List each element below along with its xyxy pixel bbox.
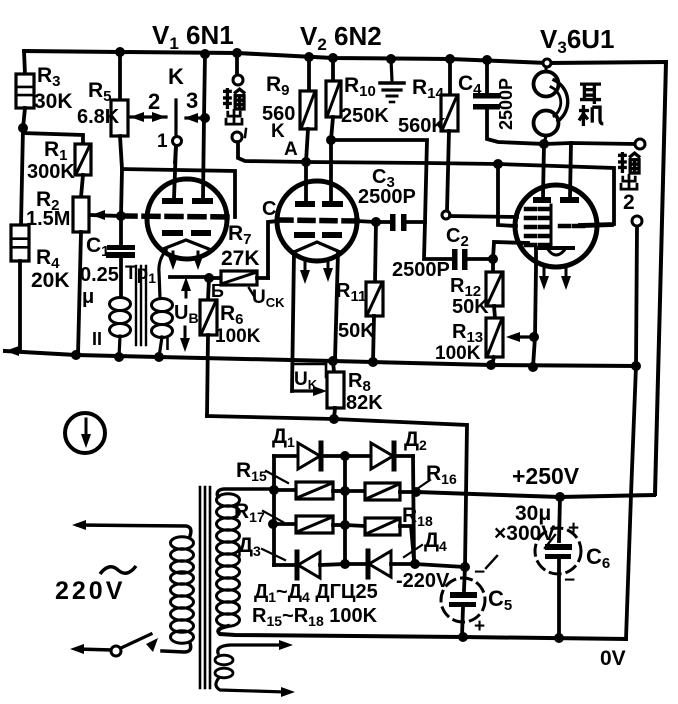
resistor R6 100K bbox=[208, 279, 209, 300]
svg-text:A: A bbox=[284, 139, 298, 160]
wire: output2 cold lead down to 0V bbox=[626, 227, 637, 639]
power switch bbox=[77, 649, 111, 650]
svg-text:3: 3 bbox=[186, 88, 198, 113]
capacitor C5 30u electrolytic bbox=[464, 567, 465, 590]
svg-text:+: + bbox=[568, 518, 579, 539]
svg-text:V1 6N1: V1 6N1 bbox=[152, 20, 234, 53]
wire: filament bottom lead arrow bbox=[216, 679, 286, 692]
label output2 Chinese 出 bbox=[621, 174, 637, 189]
svg-text:−: − bbox=[564, 570, 575, 591]
resistor R13 100K (pot) bbox=[486, 318, 503, 357]
resistor R8 82K bbox=[333, 361, 334, 372]
wire: top B+ rail bbox=[24, 51, 666, 63]
UK label frame bbox=[292, 363, 326, 366]
svg-text:V2 6N2: V2 6N2 bbox=[300, 21, 382, 54]
V2 cathode bars bbox=[294, 232, 315, 238]
wire: V1 left plate lead to switch bbox=[174, 146, 176, 198]
svg-text:−: − bbox=[474, 562, 485, 583]
resistor R14 560K bbox=[448, 59, 452, 95]
svg-text:μ: μ bbox=[82, 286, 94, 308]
svg-text:II: II bbox=[92, 329, 102, 349]
svg-text:82K: 82K bbox=[346, 392, 383, 414]
V2 grid dashed line bbox=[278, 220, 357, 221]
svg-text:0.25: 0.25 bbox=[80, 264, 119, 286]
V1 plate bars bbox=[162, 198, 183, 204]
label output1 Chinese 出 bbox=[226, 109, 242, 124]
resistor R16 bbox=[345, 489, 365, 493]
UB measure arrows bbox=[185, 284, 188, 297]
wire: V1 cathode to Tp1 winding I bbox=[159, 250, 166, 298]
resistor R17 bbox=[273, 522, 296, 526]
primary winding bbox=[171, 537, 194, 549]
svg-text:27K: 27K bbox=[221, 247, 260, 270]
Tp1 winding II bbox=[110, 298, 131, 311]
svg-text:2: 2 bbox=[623, 191, 635, 214]
wire: common bias bus bbox=[5, 351, 636, 366]
wire: secondary top to bridge bbox=[217, 489, 274, 497]
V3 right grid dashes bbox=[560, 224, 583, 229]
resistor R7 27K bbox=[211, 276, 221, 280]
wire: bridge left column bbox=[272, 456, 276, 565]
transformer Tp1 core bbox=[135, 266, 137, 345]
capacitor C4 2500P bbox=[485, 60, 489, 93]
diode D2 bbox=[345, 454, 371, 458]
V2 heater arrows bbox=[304, 260, 307, 276]
svg-text:250K: 250K bbox=[341, 105, 389, 127]
resistor R15 bbox=[274, 488, 296, 492]
UK wiper arrow into R8 bbox=[292, 389, 320, 392]
capacitor C2 2500P bbox=[452, 249, 458, 270]
capacitor C6 30u electrolytic bbox=[559, 497, 560, 541]
wire: filament top lead arrow bbox=[218, 645, 284, 653]
tube V3 6U1 envelope bbox=[515, 185, 597, 267]
svg-text:50K: 50K bbox=[338, 320, 375, 342]
wire: R10 node line down to C3/C2 bbox=[331, 140, 452, 259]
wire: C2 node to V3 cathode bbox=[493, 242, 528, 259]
resistor R4 20K bbox=[11, 225, 29, 261]
resistor R18 bbox=[345, 525, 365, 526]
svg-text:30K: 30K bbox=[34, 90, 73, 113]
wire: V3 right plate to output2 line bbox=[570, 143, 571, 197]
diode D3 bbox=[274, 563, 297, 567]
V1 heater arrows bbox=[172, 252, 175, 262]
terminal output-1 (shuchu) bbox=[235, 53, 239, 75]
wire: ring to V3 grid left entry bbox=[450, 216, 517, 217]
svg-text:+250V: +250V bbox=[512, 463, 580, 489]
wire: V1 cathode line node B bbox=[170, 275, 211, 279]
label headphone Chinese 机 bbox=[579, 105, 603, 126]
wire: R10 bottom to V2 right plate bbox=[331, 117, 333, 201]
resistor R5 6.8K (pot) bbox=[118, 52, 122, 100]
resistor R2 1.5M (pot) bbox=[81, 175, 83, 197]
wire: +250V rail bbox=[416, 492, 654, 497]
svg-text:50K: 50K bbox=[452, 296, 489, 318]
label output2 Chinese 输 bbox=[618, 152, 640, 173]
svg-text:1.5M: 1.5M bbox=[26, 208, 70, 230]
svg-text:×300V: ×300V bbox=[494, 522, 555, 545]
label headphone Chinese 耳 bbox=[580, 84, 601, 104]
wire: secondary bottom = 0V bus bbox=[218, 626, 626, 639]
power transformer core bbox=[199, 487, 202, 688]
headphone symbol (erji) bbox=[545, 67, 548, 72]
V3 heater arrows bbox=[543, 268, 546, 281]
terminal output-2 bottom bbox=[632, 216, 642, 226]
label pointer lines bbox=[266, 471, 288, 483]
svg-text:0V: 0V bbox=[600, 647, 626, 670]
resistor R11 50K bbox=[375, 222, 376, 282]
svg-text:6.8K: 6.8K bbox=[77, 106, 120, 128]
wire: V2 grid exit to C3/R11 node bbox=[357, 221, 376, 222]
switch K contact 2 double arrow bbox=[130, 115, 166, 118]
wire: V2 right cathode lead to bus bbox=[335, 252, 338, 360]
resistor R9 560K bbox=[307, 57, 311, 92]
op/tube V1 6N1 envelope bbox=[147, 179, 227, 259]
diode D4 bbox=[345, 562, 368, 566]
ground symbol (below rail) bbox=[391, 59, 392, 81]
wire: signal entry to V3 grid left bbox=[498, 164, 516, 226]
svg-text:-220V: -220V bbox=[396, 570, 450, 592]
wire: left vertical to R4 bbox=[21, 128, 23, 225]
wire: V1 right plate lead to rail bbox=[203, 54, 205, 198]
wire: bias line R6 to C5 bbox=[207, 416, 467, 567]
capacitor C1 0.25u bbox=[119, 216, 123, 245]
HV secondary winding bbox=[217, 494, 240, 506]
wire: R2 wiper to V1 grid node bbox=[91, 215, 121, 216]
wire: bridge right column bbox=[413, 456, 414, 564]
V2 cathode caret bbox=[294, 242, 340, 252]
resistor R3 30K bbox=[24, 51, 25, 74]
node: headphone jack circle on rail bbox=[543, 59, 551, 67]
wire: right edge vertical (rail to +250V corner) bbox=[655, 62, 666, 494]
V1 cathode caret bbox=[163, 240, 209, 249]
resistor R1 300K bbox=[23, 133, 83, 144]
svg-text:2500P: 2500P bbox=[392, 259, 450, 281]
wire: R7 to V2 grid (node C) bbox=[268, 221, 278, 278]
V3 grid dash stack bbox=[526, 207, 549, 212]
wire: primary top lead with arrow bbox=[78, 525, 191, 536]
svg-text:1: 1 bbox=[157, 131, 168, 152]
Tp1 winding I bbox=[152, 299, 173, 312]
svg-text:K: K bbox=[168, 64, 184, 89]
svg-text:100K: 100K bbox=[215, 326, 261, 347]
node: rail junction dots bbox=[115, 47, 125, 57]
wire: V1 grid box bbox=[121, 169, 235, 217]
wire: R9 bottom through node A line to V2 left plate bbox=[306, 129, 308, 201]
svg-text:K: K bbox=[271, 121, 285, 142]
V2 plate bars bbox=[295, 201, 315, 207]
pointer slash to C5 bbox=[486, 556, 497, 568]
svg-text:2500P: 2500P bbox=[358, 186, 416, 208]
svg-text:560K: 560K bbox=[398, 115, 446, 137]
tube V2 6N2 envelope bbox=[277, 181, 357, 261]
R13 wiper arrow from V3 cathode bbox=[512, 335, 534, 338]
meter/indicator symbol bbox=[65, 413, 105, 453]
svg-text:V36U1: V36U1 bbox=[540, 24, 615, 57]
switch K pole with circle contact 1 bbox=[174, 100, 177, 136]
V1 grid dashed line bbox=[121, 216, 235, 217]
svg-text:C: C bbox=[262, 198, 276, 220]
filament winding bbox=[215, 655, 233, 665]
resistor R10 250K bbox=[331, 58, 335, 81]
capacitor C3 2500P bbox=[376, 220, 390, 224]
svg-text:2: 2 bbox=[148, 89, 160, 114]
wire: node A line (output1 to V3 grid) bbox=[306, 162, 614, 225]
node: R3/R1 junction bbox=[18, 123, 28, 133]
label output1 Chinese 输 bbox=[223, 88, 245, 109]
wire: row D to C5 bbox=[415, 564, 465, 567]
svg-text:+: + bbox=[474, 616, 485, 637]
V1 cathode bars bbox=[162, 230, 183, 236]
svg-text:220V: 220V bbox=[55, 577, 125, 605]
svg-text:300K: 300K bbox=[27, 161, 75, 183]
wire: V3 cathode lead to bus bbox=[533, 248, 536, 367]
svg-text:I: I bbox=[165, 334, 170, 354]
svg-text:Б: Б bbox=[211, 281, 224, 301]
V3 cathode bbox=[536, 246, 573, 250]
wire: bridge center column bbox=[343, 456, 347, 564]
svg-text:100K: 100K bbox=[435, 343, 481, 364]
wire: primary bottom to switch bbox=[162, 643, 191, 652]
V3 plate bars bbox=[533, 197, 551, 203]
resistor R12 50K bbox=[491, 259, 495, 272]
svg-text:2500P: 2500P bbox=[496, 78, 516, 130]
svg-text:20K: 20K bbox=[31, 269, 70, 292]
wire: headphone node to output2 top terminal bbox=[544, 143, 634, 144]
switch K contact 3 arrow bbox=[186, 116, 203, 119]
wire: V3 left plate to headphone node bbox=[543, 144, 544, 197]
wire: V2 left cathode lead down to UK arrow bbox=[292, 252, 294, 391]
node: R14 ring terminal bbox=[442, 211, 450, 219]
diode D1 bbox=[274, 454, 298, 458]
